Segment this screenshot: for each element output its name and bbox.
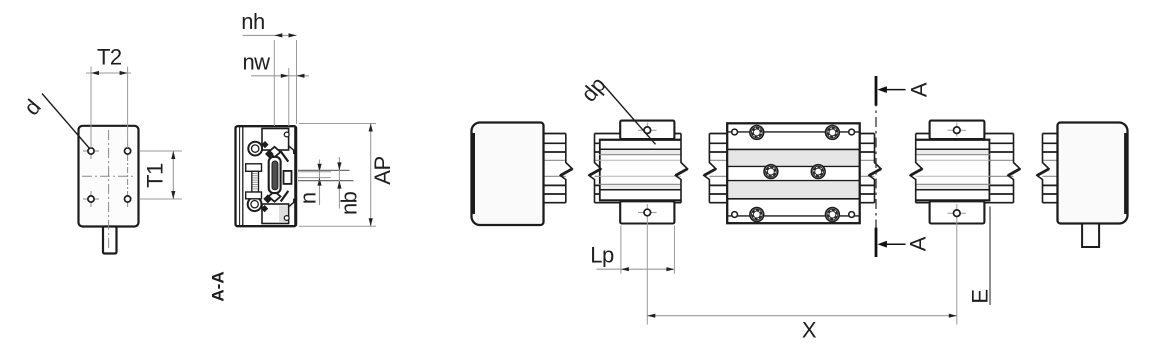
carriage 1 body [599, 139, 681, 202]
plain hole bottom-left [732, 212, 738, 218]
right end block [1058, 123, 1128, 224]
leader line for d [42, 94, 90, 150]
svg-text:A: A [905, 236, 930, 251]
svg-text:X: X [802, 318, 817, 343]
svg-text:Lp: Lp [590, 243, 614, 268]
ball diamond bottom-left black [261, 205, 268, 212]
break 7 [1008, 134, 1020, 203]
carriage 2 top hole [948, 129, 967, 131]
leader line dp [604, 86, 656, 145]
break 8 [1037, 134, 1049, 203]
carriage 1 centerline [646, 123, 648, 137]
svg-text:n: n [296, 192, 321, 204]
dimension AP extension lines [299, 123, 376, 125]
dimension nh line [243, 34, 297, 36]
dimension E extension line [989, 207, 991, 306]
upper pocket box [262, 129, 289, 151]
ball diamond bottom white [269, 191, 281, 201]
hex bolt top-right [826, 125, 840, 139]
dimension n extension lines [298, 171, 331, 173]
rail profile in section [269, 157, 281, 193]
break 5 [869, 134, 881, 203]
dimension Lp extension lines [620, 226, 622, 274]
break 6 [910, 134, 922, 203]
plain hole top-right [849, 129, 855, 135]
bottom tab of end plate [103, 227, 117, 254]
right edge thick line [294, 127, 296, 226]
vertical centerline of plate [108, 130, 110, 251]
svg-text:dp: dp [576, 72, 610, 106]
bolt shaft bottom washer [246, 192, 262, 199]
ball diamond top white [269, 147, 281, 157]
svg-text:A: A [906, 82, 931, 97]
ball diamond top black [265, 150, 274, 159]
svg-text:nw: nw [242, 50, 270, 75]
carriage 1 bottom flange [620, 201, 674, 223]
dimension T1 extension lines [140, 150, 182, 152]
dimension Lp line [597, 268, 675, 270]
break 4 [704, 134, 716, 203]
break 2 [589, 134, 601, 203]
section marker bottom bar [875, 228, 878, 257]
bolt shaft top washer [246, 164, 262, 172]
dimension n line [319, 160, 321, 206]
section marker bottom arrow [884, 243, 906, 245]
carriage 1 top flange [620, 121, 674, 139]
carriage 2 bottom flange [930, 201, 985, 223]
carriage 2 bottom hole [948, 212, 967, 214]
dimension T2 line [86, 72, 131, 74]
carriage 2 centerline [956, 123, 958, 137]
bottom right slot lines [289, 199, 294, 207]
dimension nw extension line [288, 68, 290, 126]
top right slot lines [289, 146, 294, 154]
break 1 [560, 134, 572, 203]
section marker top bar [875, 76, 878, 106]
svg-text:AP: AP [370, 156, 395, 184]
carriage section outer body [236, 126, 297, 226]
dimension nb extension lines [298, 169, 350, 171]
left end block [472, 123, 544, 226]
section marker top arrow [884, 89, 906, 91]
svg-text:T1: T1 [142, 163, 167, 188]
svg-text:A-A: A-A [208, 271, 227, 301]
ball diamond top-left black [261, 141, 268, 148]
rail break symbols [560, 134, 1049, 203]
bolt shaft with threads [252, 171, 259, 192]
rail lines [544, 134, 1058, 203]
horizontal centerline of plate [82, 175, 136, 177]
svg-text:nb: nb [337, 191, 362, 215]
ball diamond bottom black [263, 194, 272, 203]
carriage 1 top hole [638, 129, 657, 131]
hex bolt top-left [750, 125, 764, 139]
break 3 [676, 134, 688, 203]
center clamp block [727, 123, 860, 223]
hex bolt mid-right [811, 165, 825, 179]
hex bolt bottom-right [826, 208, 840, 222]
hole centerline ticks [83, 150, 99, 152]
svg-text:E: E [967, 289, 992, 303]
lower pocket box [262, 204, 289, 224]
dimension T1 line [172, 151, 174, 199]
plain hole bottom-right [849, 212, 855, 218]
diagonal contact line bottom [281, 191, 289, 202]
svg-text:nh: nh [241, 9, 264, 34]
hex bolt mid-left [764, 165, 778, 179]
carriage 2 body [916, 139, 991, 202]
svg-text:d: d [19, 95, 46, 120]
inner wall line [242, 127, 244, 226]
right end block tab [1082, 224, 1099, 248]
hex bolt bottom-left [750, 208, 764, 222]
carriage 1 bottom hole [638, 212, 657, 214]
dimension AP line [370, 124, 372, 227]
upper bolt circle [248, 142, 262, 156]
rail slot dark bar [272, 161, 278, 190]
lower bolt circle [248, 197, 262, 211]
dimension nw line [251, 75, 309, 77]
diagonal contact line top [281, 151, 289, 161]
carriage 2 top flange [930, 121, 985, 139]
dimension X line [647, 315, 957, 317]
plain hole top-left [732, 129, 738, 135]
dimension T2 extension lines [90, 67, 92, 149]
dimension nh extension lines [273, 40, 275, 126]
dimension nb line [338, 157, 340, 209]
hole bottom-left [88, 196, 94, 202]
end plate body [79, 126, 139, 227]
T-slot cavity [284, 171, 292, 184]
hole bottom-right [125, 196, 131, 202]
hole top-left [88, 148, 94, 154]
svg-text:T2: T2 [97, 45, 122, 70]
section cut line A-A [875, 76, 877, 257]
hole top-right [125, 148, 131, 154]
